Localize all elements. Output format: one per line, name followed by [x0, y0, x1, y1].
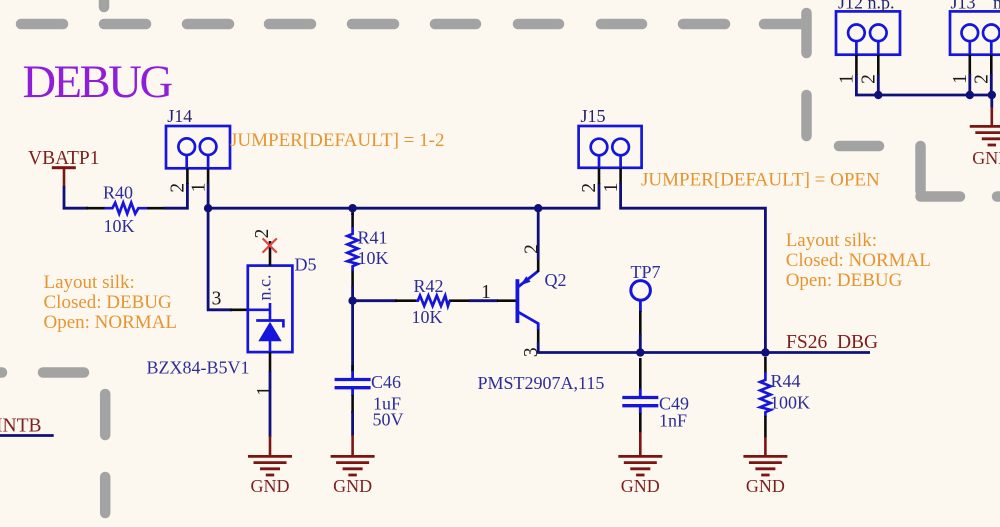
junction TP7/C49 — [636, 348, 644, 356]
resistor R42 pins — [395, 299, 470, 302]
svg-text:50V: 50V — [373, 410, 404, 430]
C49 top pin lead — [639, 358, 642, 390]
svg-text:Closed: DEBUG: Closed: DEBUG — [44, 292, 173, 313]
wire C46 to GND — [351, 412, 354, 437]
svg-text:TP7: TP7 — [631, 262, 661, 282]
junction at R41 top — [348, 204, 356, 212]
svg-text:INTB: INTB — [0, 416, 42, 437]
J14 pin 1 lead — [207, 168, 210, 184]
svg-text:2: 2 — [971, 74, 992, 84]
wire R41 branch — [351, 208, 354, 215]
svg-text:VBATP1: VBATP1 — [28, 148, 100, 169]
wire J12 pin2 to J13 — [878, 74, 992, 95]
svg-text:2: 2 — [168, 183, 189, 193]
svg-text:100K: 100K — [770, 392, 810, 412]
svg-text:1: 1 — [837, 74, 858, 84]
wire Q2 emitter to bus — [537, 208, 540, 259]
dashed border right vertical (x=806) — [801, 13, 812, 136]
resistor R41 body — [347, 227, 357, 271]
J13 circles — [962, 25, 979, 42]
J12 internal stubs — [856, 41, 878, 55]
transistor Q2 base bar — [516, 279, 520, 323]
wire J13 pins to bus — [970, 74, 992, 95]
resistor R44 body — [760, 372, 770, 417]
svg-text:Closed: NORMAL: Closed: NORMAL — [786, 250, 931, 271]
svg-text:JUMPER[DEFAULT] = OPEN: JUMPER[DEFAULT] = OPEN — [641, 170, 880, 191]
wire R41 to node — [351, 286, 354, 301]
wire TP7 to bus2 — [639, 334, 642, 353]
J12 pin 1 lead — [855, 55, 858, 75]
wire J15 pin1 to FS26 node — [621, 183, 766, 353]
dashed border corner elbow at (806,24)->down handled above; horizontal y=146 — [839, 141, 879, 152]
svg-text:GND: GND — [333, 476, 372, 496]
svg-text:10K: 10K — [358, 248, 389, 268]
svg-text:R41: R41 — [358, 228, 388, 248]
dashed border top stub above line — [99, 0, 110, 7]
J14 circles — [178, 138, 195, 155]
Q2 collector diagonal — [519, 312, 539, 330]
J15 pin 1 lead — [619, 168, 622, 184]
dashed border bottom-left horizontal y=372.5 — [0, 367, 84, 378]
svg-text:Open: NORMAL: Open: NORMAL — [44, 312, 178, 333]
resistor R40 body — [104, 203, 147, 214]
svg-text:10K: 10K — [104, 216, 135, 236]
test point TP7 circle — [631, 281, 651, 301]
jumper J14 box — [166, 126, 230, 168]
svg-text:J13: J13 — [951, 0, 976, 13]
wire VBATP1 lead (power) — [63, 169, 66, 187]
svg-text:Open: DEBUG: Open: DEBUG — [786, 270, 903, 291]
jumper J15 box — [579, 126, 642, 168]
power port VBATP1 bar — [52, 166, 76, 169]
wire C46 branch — [351, 301, 354, 371]
J15 internal stubs — [599, 155, 621, 168]
svg-text:GND: GND — [746, 476, 785, 496]
J12 circles — [848, 25, 865, 42]
junction FS26 node — [761, 348, 769, 356]
svg-text:D5: D5 — [295, 255, 317, 275]
J13 pin 2 lead — [990, 55, 993, 75]
D5 pin 2 stub (top) — [269, 241, 272, 266]
svg-text:1: 1 — [189, 183, 210, 193]
Q2 emitter pin lead — [537, 259, 540, 273]
C46 top pin lead — [351, 365, 354, 372]
ground symbol J13 — [970, 126, 1000, 145]
svg-text:n.c.: n.c. — [255, 275, 275, 301]
svg-text:BZX84-B5V1: BZX84-B5V1 — [147, 358, 250, 378]
wire main bus y=209 — [208, 183, 599, 208]
svg-text:1nF: 1nF — [659, 411, 687, 431]
svg-text:GND: GND — [621, 476, 660, 496]
D5 internal connect lines — [248, 303, 270, 321]
dashed region border top horizontal line — [21, 19, 801, 30]
J15 circles — [591, 139, 608, 156]
svg-text:C46: C46 — [371, 372, 401, 392]
resistor R42 body — [416, 296, 450, 306]
J12 pin 2 lead — [877, 55, 880, 75]
Q2 collector pin lead — [537, 330, 540, 344]
svg-text:Layout silk:: Layout silk: — [44, 272, 135, 293]
zener diode D5 box — [248, 266, 293, 353]
junction J13 pin1 — [966, 91, 974, 99]
svg-text:J15: J15 — [581, 106, 606, 126]
ground symbol R44 — [743, 456, 787, 475]
ground symbol D5 — [248, 456, 292, 475]
J14 internal stubs — [187, 155, 208, 168]
junction J13 pin2 — [988, 91, 996, 99]
svg-text:FS26 DBG: FS26 DBG — [786, 332, 878, 353]
ground lead R44 — [764, 437, 767, 456]
svg-text:2: 2 — [579, 183, 600, 193]
svg-text:PMST2907A,115: PMST2907A,115 — [478, 373, 605, 393]
svg-text:J14: J14 — [167, 106, 192, 126]
junction at R41 bottom — [348, 297, 356, 305]
svg-text:1: 1 — [481, 282, 491, 303]
R44 bottom pin lead — [764, 416, 767, 438]
J14 pin1 wire to bus — [207, 183, 210, 208]
svg-text:3: 3 — [212, 288, 222, 309]
ground lead D5 — [269, 436, 272, 456]
svg-text:3: 3 — [521, 347, 542, 357]
svg-text:R40: R40 — [103, 182, 133, 202]
svg-text:1: 1 — [601, 183, 622, 193]
Q2 base pin lead — [497, 299, 516, 302]
D5 zener triangle — [258, 322, 281, 342]
svg-text:R44: R44 — [771, 371, 801, 391]
C49 bottom pin lead — [639, 407, 642, 414]
J13 internal stubs — [970, 41, 992, 55]
jumper J13 box — [950, 11, 1000, 54]
wire J12 pin1 corner — [856, 74, 878, 95]
D5 zener cathode bar — [256, 321, 283, 328]
dashed border bottom-left vertical x=105 — [100, 394, 111, 513]
ground lead J13 — [990, 107, 993, 126]
ground symbol C46 — [331, 456, 375, 475]
svg-text:R42: R42 — [414, 276, 444, 296]
dashed border inner corner x=920 down to y=196 then right — [921, 146, 1000, 197]
resistor R41 pins — [351, 213, 354, 287]
svg-text:2: 2 — [252, 229, 273, 239]
wire J14 pin1 down to D5 pin3 — [208, 208, 232, 310]
J15 pin 2 lead — [598, 168, 601, 184]
svg-text:GND: GND — [251, 476, 290, 496]
junction J12 pin2 — [874, 91, 882, 99]
Q2 emitter arrow — [520, 276, 530, 285]
wire INTB stub — [0, 434, 54, 437]
wire node to R42 — [353, 299, 397, 302]
R44 top pin lead — [764, 357, 767, 373]
D5 anode line — [269, 341, 272, 352]
C46 bottom pin lead — [351, 389, 354, 414]
junction at Q2 emitter — [534, 204, 542, 212]
wire VBATP1 to R40 — [64, 186, 88, 208]
svg-text:DEBUG: DEBUG — [23, 57, 173, 108]
resistor R40 pins — [86, 207, 165, 210]
svg-text:GND: GND — [972, 148, 1000, 168]
svg-text:n.p.: n.p. — [993, 0, 1000, 13]
junction at J14 pin1 — [204, 204, 212, 212]
wire D5 to GND — [269, 371, 272, 437]
capacitor C46 plates — [335, 380, 371, 388]
svg-text:JUMPER[DEFAULT] = 1-2: JUMPER[DEFAULT] = 1-2 — [230, 130, 444, 151]
svg-text:1: 1 — [254, 386, 275, 396]
svg-text:2: 2 — [521, 244, 542, 254]
svg-text:J12 n.p.: J12 n.p. — [838, 0, 895, 13]
capacitor C49 plates — [622, 398, 658, 406]
no-ERC red X on D5 pin 2 — [263, 238, 277, 252]
wire J13 pin2 down — [990, 95, 993, 108]
svg-text:Layout silk:: Layout silk: — [786, 230, 877, 251]
D5 pin 1 lead (bottom) — [269, 352, 272, 372]
wire Q2 collector to bus2 — [538, 343, 870, 353]
svg-text:1: 1 — [950, 74, 971, 84]
svg-text:10K: 10K — [412, 307, 443, 327]
wire R40 to J14 pin2 — [164, 183, 187, 208]
D5 pin 3 lead — [230, 308, 248, 311]
svg-text:2: 2 — [858, 74, 879, 84]
J14 pin 2 lead — [186, 168, 189, 184]
J13 pin 1 lead — [968, 55, 971, 75]
jumper J12 box — [836, 11, 900, 54]
ground lead C49 — [639, 432, 642, 456]
ground lead C46 — [351, 435, 354, 456]
TP7 pin lead — [639, 300, 642, 312]
wire R42 to Q2 base — [469, 299, 498, 302]
ground symbol C49 — [618, 456, 662, 475]
Q2 emitter diagonal — [519, 271, 539, 287]
svg-text:Q2: Q2 — [545, 270, 567, 290]
